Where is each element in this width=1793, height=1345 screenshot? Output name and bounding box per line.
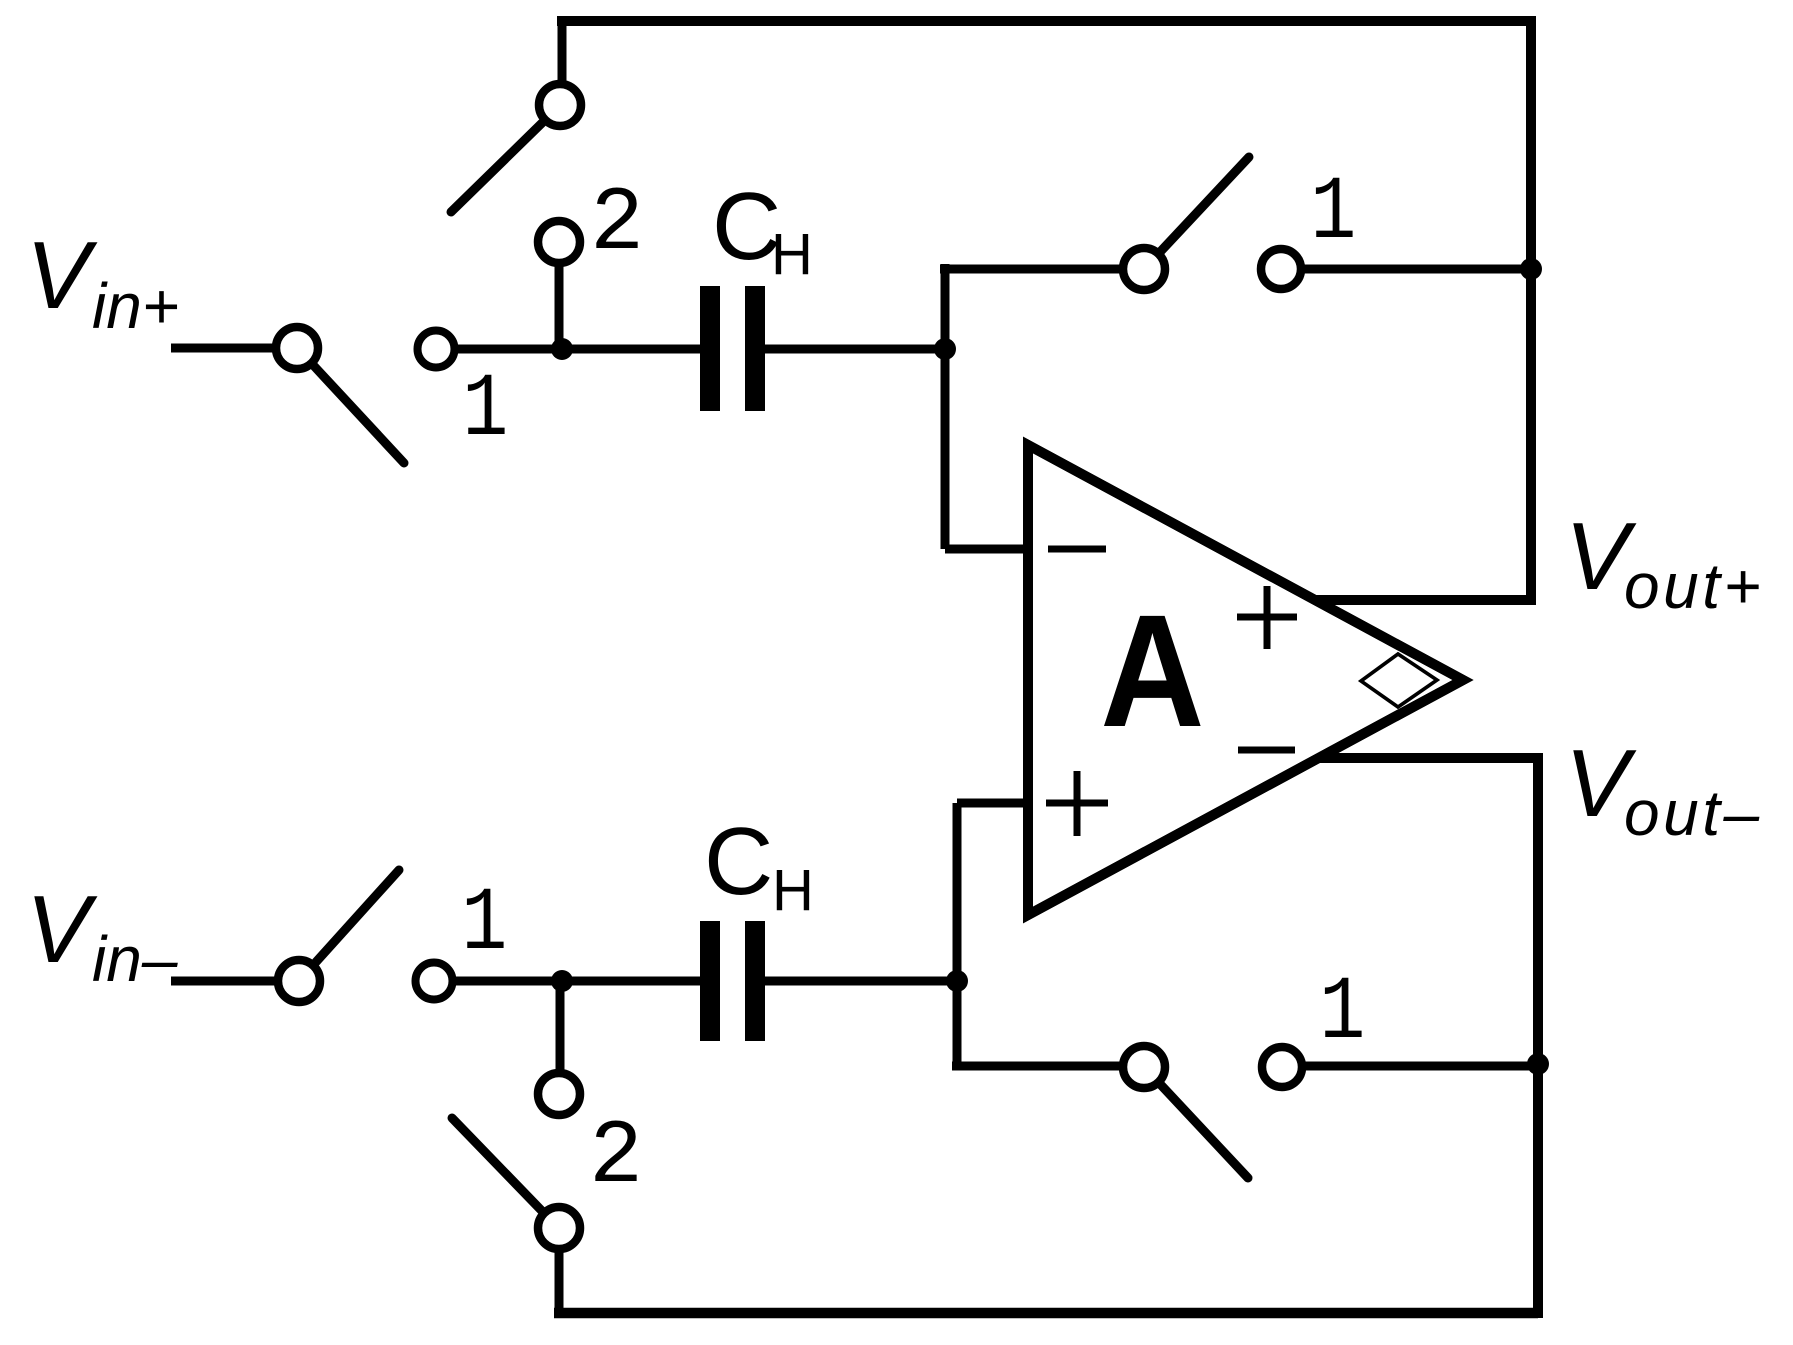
capacitor CH top left plate [700, 286, 720, 411]
switch S1c pivot circle [278, 960, 320, 1002]
switch S1d arm [1161, 1085, 1248, 1178]
wire capacitor to plus node [765, 977, 957, 986]
svg-text:out+: out+ [1624, 550, 1764, 622]
svg-text:1: 1 [1310, 163, 1356, 265]
wire plus node vertical [953, 803, 962, 1070]
op-amp plus input sign [1046, 771, 1108, 836]
wire Vout+ output stub [1300, 595, 1536, 605]
svg-text:H: H [772, 858, 814, 923]
op-amp triangle outline overlay [1028, 445, 1463, 915]
label 1 (bottom input) [461, 874, 507, 976]
svg-text:1: 1 [1319, 963, 1365, 1065]
op-amp minus input sign [1048, 546, 1106, 553]
wire right vertical upper (Vout+ feedback) [1526, 16, 1536, 600]
junction dot top input [551, 338, 573, 360]
wire plus input to opamp [957, 799, 1030, 808]
wire to feedback switch bottom [952, 1062, 1144, 1071]
switch S1a arm [314, 366, 404, 463]
svg-text:in+: in+ [92, 270, 179, 342]
switch S1c terminal circle (node 1) [416, 963, 453, 1000]
capacitor CH bottom right plate [745, 921, 765, 1041]
op-amp gain label A [1100, 582, 1204, 761]
svg-text:H: H [771, 222, 813, 287]
wire right vertical lower (Vout- feedback) [1533, 758, 1543, 1318]
svg-text:A: A [1100, 582, 1204, 761]
junction dot at plus node [946, 970, 968, 992]
wire feedback to Vout+ rail [1281, 265, 1531, 274]
switch S2a terminal circle (node 2) [538, 221, 580, 263]
label 1 (top input) [462, 360, 508, 462]
op-amp A triangle body [1028, 445, 1463, 915]
wire node2 to junction [555, 242, 564, 349]
svg-text:out–: out– [1624, 777, 1763, 849]
label Vin- [26, 876, 178, 995]
label 1 (bottom feedback) [1319, 963, 1365, 1065]
switch S1b pivot circle [1123, 248, 1165, 290]
label Vout- [1565, 730, 1763, 849]
wire node1 to capacitor bottom [434, 977, 700, 986]
switch S1a terminal circle (node 1) [418, 331, 455, 368]
switch S2a pivot circle [539, 84, 581, 126]
label 1 (top feedback) [1310, 163, 1356, 265]
label Vin+ [26, 222, 179, 342]
switch S1d pivot circle [1123, 1046, 1165, 1088]
svg-text:1: 1 [462, 360, 508, 462]
switch S2a arm [451, 123, 542, 212]
label CH (bottom) [704, 808, 814, 923]
switch S1d terminal circle [1262, 1047, 1302, 1087]
wire node1 to capacitor [436, 345, 700, 354]
wire minus input to opamp [945, 545, 1030, 554]
svg-text:V: V [26, 876, 98, 983]
switch S2b terminal circle (node 2) [538, 1073, 580, 1115]
label CH (top) [712, 173, 813, 287]
wire Vout- output stub [1300, 753, 1543, 763]
op-amp minus output sign [1238, 747, 1295, 754]
wire Vin+ lead [171, 344, 297, 353]
capacitor CH bottom left plate [700, 921, 720, 1041]
wire top rail [557, 16, 1531, 26]
wire junction to node2 bottom [556, 981, 565, 1094]
op-amp plus output sign [1237, 586, 1297, 649]
switch S1a pivot circle [276, 327, 318, 369]
wire minus node vertical [941, 264, 950, 549]
wire Vin- lead [171, 977, 299, 986]
switch S1c arm [316, 870, 399, 962]
switch S2b pivot circle [538, 1207, 580, 1249]
svg-text:1: 1 [461, 874, 507, 976]
label Vout+ [1565, 503, 1764, 622]
svg-text:C: C [704, 808, 773, 915]
junction dot on Vout+ rail [1520, 258, 1542, 280]
switch S1b arm [1161, 157, 1249, 251]
op-amp output diamond mark [1361, 654, 1437, 707]
junction dot at minus node [934, 338, 956, 360]
wire to feedback switch top [940, 265, 1144, 274]
capacitor CH top right plate [745, 286, 765, 411]
svg-text:V: V [26, 222, 98, 329]
wire bottom rail [554, 1308, 1538, 1319]
switch S1b terminal circle [1261, 249, 1301, 289]
wire feedback to Vout- rail [1282, 1062, 1538, 1071]
wire pivot to bottom rail [555, 1228, 564, 1313]
junction dot on Vout- rail [1527, 1053, 1549, 1075]
svg-text:2: 2 [590, 174, 644, 276]
junction dot bottom input [551, 970, 573, 992]
svg-text:in–: in– [92, 923, 178, 995]
wire switch 2a drop from rail [558, 16, 567, 105]
switch S2b arm [452, 1118, 541, 1210]
wire capacitor to opamp node [765, 345, 945, 354]
svg-text:2: 2 [589, 1107, 643, 1209]
